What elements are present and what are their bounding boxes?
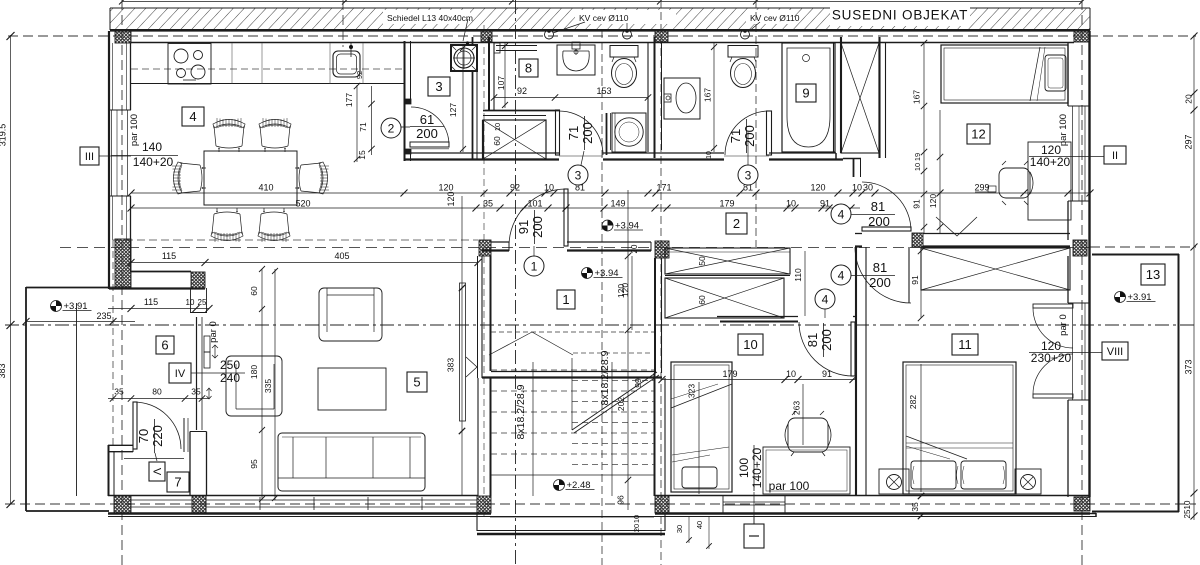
svg-text:20: 20 — [632, 524, 641, 532]
svg-text:91: 91 — [910, 275, 920, 285]
svg-text:520: 520 — [295, 199, 310, 209]
svg-text:200: 200 — [869, 275, 891, 290]
svg-text:235: 235 — [96, 311, 111, 321]
svg-text:115: 115 — [144, 297, 158, 307]
svg-text:15: 15 — [357, 150, 367, 160]
svg-text:91: 91 — [912, 199, 922, 209]
svg-text:127: 127 — [448, 103, 458, 117]
svg-text:177: 177 — [344, 93, 354, 107]
svg-text:179: 179 — [719, 199, 734, 209]
svg-text:140+20: 140+20 — [1030, 155, 1071, 169]
svg-text:200: 200 — [416, 126, 438, 141]
svg-text:VIII: VIII — [1107, 346, 1124, 358]
svg-text:par 100: par 100 — [1058, 114, 1069, 146]
svg-text:1: 1 — [562, 292, 569, 307]
svg-text:179: 179 — [722, 369, 737, 379]
svg-text:200: 200 — [868, 214, 890, 229]
svg-text:7: 7 — [174, 475, 181, 490]
svg-text:200: 200 — [580, 122, 595, 144]
svg-text:4: 4 — [838, 268, 845, 282]
svg-text:par 0: par 0 — [1058, 314, 1069, 336]
svg-text:220: 220 — [150, 425, 165, 447]
svg-text:35: 35 — [910, 502, 920, 512]
svg-text:71: 71 — [728, 129, 743, 143]
svg-text:153: 153 — [596, 86, 611, 96]
svg-text:25: 25 — [1183, 509, 1192, 518]
svg-text:par 100: par 100 — [769, 479, 810, 493]
svg-text:200: 200 — [819, 329, 834, 351]
svg-text:10: 10 — [706, 151, 713, 159]
svg-text:8: 8 — [525, 61, 532, 76]
svg-text:81: 81 — [873, 260, 887, 275]
svg-text:410: 410 — [258, 183, 273, 193]
svg-text:282: 282 — [908, 395, 918, 409]
svg-text:107: 107 — [496, 76, 506, 90]
svg-text:par 0: par 0 — [208, 321, 219, 343]
svg-text:11: 11 — [958, 337, 972, 352]
svg-text:10: 10 — [743, 337, 757, 352]
svg-text:4: 4 — [822, 292, 829, 306]
svg-text:250: 250 — [220, 358, 240, 372]
svg-text:2: 2 — [733, 216, 740, 231]
svg-text:373: 373 — [1184, 359, 1194, 374]
svg-text:91: 91 — [822, 369, 832, 379]
svg-text:91: 91 — [516, 220, 531, 234]
svg-text:230+20: 230+20 — [1031, 351, 1072, 365]
svg-text:92: 92 — [355, 71, 364, 79]
svg-text:80: 80 — [152, 387, 162, 397]
svg-text:1: 1 — [531, 259, 538, 273]
svg-text:20: 20 — [630, 244, 639, 253]
svg-text:IV: IV — [175, 368, 186, 380]
svg-text:140: 140 — [142, 140, 162, 154]
svg-text:100: 100 — [737, 458, 751, 478]
svg-text:10: 10 — [493, 123, 502, 131]
svg-text:5: 5 — [413, 375, 420, 390]
svg-text:60: 60 — [249, 286, 259, 296]
svg-text:299: 299 — [974, 183, 989, 193]
svg-text:35: 35 — [483, 199, 493, 209]
svg-text:3: 3 — [745, 168, 752, 182]
svg-text:30: 30 — [675, 525, 684, 533]
svg-text:8x18.2/28.9: 8x18.2/28.9 — [599, 350, 611, 405]
svg-text:149: 149 — [610, 199, 625, 209]
svg-text:120: 120 — [810, 183, 825, 193]
svg-text:KV cev Ø110: KV cev Ø110 — [579, 13, 629, 23]
svg-text:10: 10 — [913, 163, 922, 171]
svg-text:297: 297 — [1184, 134, 1194, 149]
svg-text:92: 92 — [517, 86, 527, 96]
svg-text:Schiedel L13 40x40cm: Schiedel L13 40x40cm — [387, 13, 473, 23]
svg-text:61: 61 — [420, 112, 434, 127]
svg-text:200: 200 — [530, 216, 545, 238]
svg-text:383: 383 — [446, 358, 456, 372]
svg-text:12: 12 — [971, 127, 985, 142]
svg-text:3: 3 — [435, 79, 442, 94]
svg-text:81: 81 — [805, 333, 820, 347]
svg-text:40: 40 — [695, 521, 704, 529]
svg-text:71: 71 — [566, 126, 581, 140]
svg-text:120: 120 — [446, 191, 456, 206]
svg-text:10: 10 — [186, 298, 195, 307]
svg-text:200: 200 — [742, 125, 757, 147]
svg-text:V: V — [151, 468, 163, 476]
svg-text:35: 35 — [114, 387, 124, 397]
svg-text:3: 3 — [575, 168, 582, 182]
svg-text:70: 70 — [136, 429, 151, 443]
svg-text:10: 10 — [1183, 500, 1192, 509]
svg-text:115: 115 — [162, 251, 176, 261]
svg-text:319.5: 319.5 — [0, 124, 8, 147]
svg-text:60: 60 — [492, 136, 502, 146]
svg-text:335: 335 — [263, 379, 273, 393]
svg-text:101: 101 — [527, 199, 542, 209]
svg-text:180: 180 — [249, 365, 259, 379]
svg-text:35: 35 — [191, 387, 201, 397]
svg-text:10: 10 — [852, 183, 862, 193]
svg-text:19: 19 — [913, 153, 922, 161]
svg-text:99: 99 — [633, 378, 643, 388]
svg-text:4: 4 — [838, 207, 845, 221]
svg-text:81: 81 — [871, 199, 885, 214]
svg-text:20: 20 — [1184, 94, 1194, 104]
svg-text:13: 13 — [1146, 267, 1160, 282]
svg-text:KV cev Ø110: KV cev Ø110 — [750, 13, 800, 23]
svg-text:10: 10 — [544, 183, 554, 193]
svg-text:167: 167 — [912, 90, 922, 104]
svg-text:140+20: 140+20 — [133, 155, 174, 169]
svg-text:263: 263 — [792, 401, 802, 415]
svg-text:120: 120 — [928, 194, 938, 208]
svg-text:120: 120 — [438, 183, 453, 193]
svg-text:140+20: 140+20 — [750, 447, 764, 488]
svg-text:110: 110 — [793, 268, 803, 282]
svg-text:50: 50 — [697, 256, 707, 266]
svg-text:8x18.2/28.9: 8x18.2/28.9 — [515, 384, 527, 439]
svg-text:96: 96 — [616, 495, 626, 505]
svg-text:95: 95 — [249, 459, 259, 469]
svg-text:SUSEDNI OBJEKAT: SUSEDNI OBJEKAT — [832, 8, 968, 23]
svg-text:10: 10 — [632, 515, 641, 523]
svg-text:240: 240 — [220, 371, 240, 385]
svg-text:9: 9 — [802, 86, 809, 101]
svg-text:4: 4 — [189, 109, 196, 124]
svg-text:2: 2 — [388, 121, 395, 135]
svg-text:202: 202 — [616, 397, 626, 411]
svg-text:405: 405 — [334, 251, 349, 261]
svg-text:60: 60 — [697, 295, 707, 305]
svg-text:III: III — [85, 151, 94, 163]
svg-text:71: 71 — [358, 122, 368, 132]
svg-text:167: 167 — [703, 88, 713, 102]
svg-text:91: 91 — [820, 199, 830, 209]
svg-text:II: II — [1112, 150, 1118, 162]
svg-text:120: 120 — [616, 284, 626, 298]
svg-text:383: 383 — [0, 363, 7, 378]
svg-text:6: 6 — [161, 338, 168, 353]
svg-text:323: 323 — [687, 384, 697, 398]
svg-text:par 100: par 100 — [129, 114, 140, 146]
